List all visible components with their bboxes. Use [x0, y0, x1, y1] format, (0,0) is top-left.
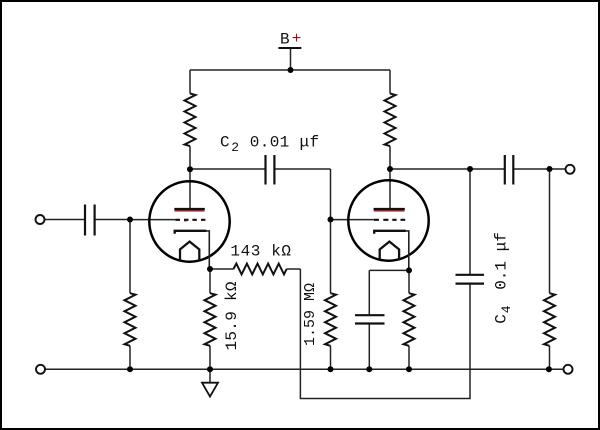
- svg-text:143 kΩ: 143 kΩ: [230, 243, 291, 261]
- svg-text:4: 4: [499, 305, 514, 313]
- svg-text:2: 2: [231, 140, 239, 155]
- svg-text:C: C: [220, 133, 230, 151]
- svg-text:C: C: [493, 314, 511, 324]
- svg-text:15.9 kΩ: 15.9 kΩ: [223, 281, 241, 350]
- svg-text:0.1 μf: 0.1 μf: [493, 232, 511, 290]
- svg-text:+: +: [292, 30, 302, 48]
- svg-text:0.01 μf: 0.01 μf: [250, 133, 320, 151]
- svg-text:1.59 MΩ: 1.59 MΩ: [302, 283, 319, 346]
- svg-text:B: B: [280, 31, 290, 49]
